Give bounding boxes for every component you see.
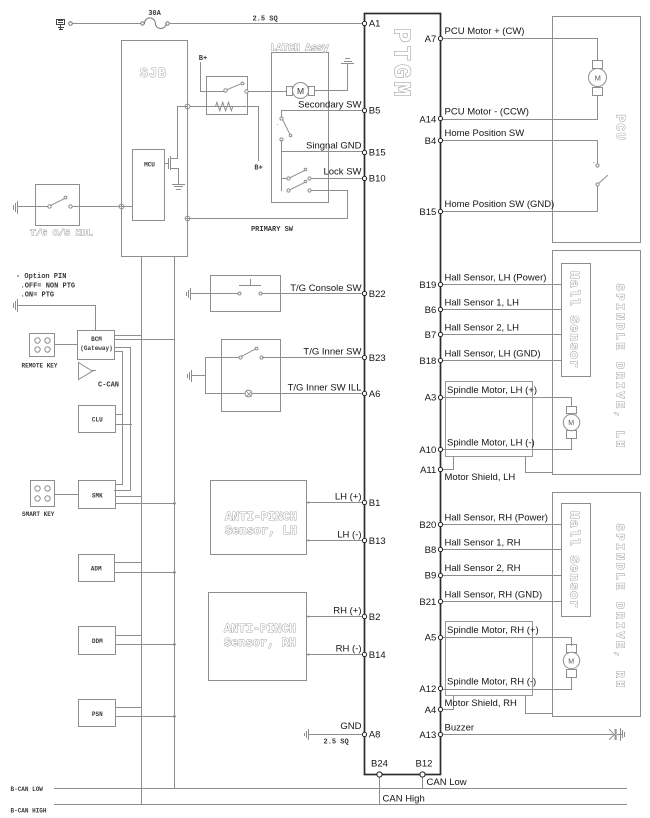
svg-text:B14: B14: [369, 650, 386, 661]
battery B+ symbol: [57, 20, 65, 30]
Hall Sensor RH box: [562, 504, 591, 617]
wire pin B6 to hall sensor LH: [443, 309, 562, 311]
svg-text:- Option PIN: - Option PIN: [16, 273, 66, 281]
wire pin B5 to secondary switch: [282, 111, 364, 117]
wire DDM to CAN bus B: [116, 644, 175, 646]
svg-text:A12: A12: [419, 684, 436, 695]
ANTI-PINCH Sensor LH box: [211, 481, 307, 555]
right side wire labels: [445, 26, 555, 734]
svg-text:A13: A13: [419, 730, 436, 741]
resistor (relay coil): [190, 102, 247, 110]
svg-text:A6: A6: [369, 389, 381, 400]
node: SJB right edge junction to relay coil: [185, 104, 190, 109]
svg-text:Hall Sensor 1, LH: Hall Sensor 1, LH: [445, 298, 520, 309]
svg-text:A4: A4: [425, 705, 437, 716]
T/G Inner SW box: [222, 340, 281, 412]
wire pin B19 to hall sensor LH: [443, 284, 562, 286]
svg-text:M: M: [595, 73, 601, 82]
wire inner SW to pin B23: [263, 357, 364, 359]
lock SW (latch, lower): [287, 189, 290, 192]
pin terminals right: [438, 36, 442, 736]
svg-text:PCU Motor - (CCW): PCU Motor - (CCW): [445, 107, 529, 118]
svg-text:Spindle Motor, LH (-): Spindle Motor, LH (-): [447, 437, 535, 448]
ground (latch assy, upward): [342, 59, 354, 64]
SJB box: [122, 41, 188, 257]
svg-text:Motor Shield, LH: Motor Shield, LH: [445, 472, 516, 483]
wire pin A13 to buzzer: [443, 734, 613, 736]
svg-text:Hall Sensor, LH (GND): Hall Sensor, LH (GND): [445, 349, 541, 360]
wire pin A11 to motor shield LH: [443, 457, 454, 470]
svg-text:.OFF= NON PTG: .OFF= NON PTG: [21, 283, 76, 291]
svg-text:REMOTE KEY: REMOTE KEY: [22, 363, 58, 370]
svg-text:LH (+): LH (+): [335, 492, 362, 503]
svg-text:A8: A8: [369, 730, 381, 741]
wire ground to inner SW branches: [192, 358, 246, 394]
svg-text:30A: 30A: [148, 10, 161, 18]
svg-text:A5: A5: [425, 633, 437, 644]
wire battery to fuse: [73, 23, 141, 25]
wire spindle motor RH to pin A12: [443, 678, 572, 690]
svg-text:B-CAN HIGH: B-CAN HIGH: [11, 808, 47, 815]
svg-text:(Gateway): (Gateway): [80, 345, 112, 352]
wire pin B8 to hall sensor RH: [443, 549, 562, 551]
wire LH (-) to pin B13: [307, 540, 364, 542]
Hall Sensor LH box: [562, 264, 591, 377]
wire CLU to C-CAN 2: [116, 424, 132, 426]
svg-text:B7: B7: [425, 330, 437, 341]
svg-text:T/G Console SW: T/G Console SW: [290, 283, 361, 294]
svg-text:PSN: PSN: [92, 711, 103, 718]
wire BCM to CAN bus B: [115, 339, 175, 341]
ground (T/G console SW): [187, 289, 191, 300]
wire spindle motor LH to pin A10: [443, 439, 572, 450]
SMK box: [79, 481, 116, 509]
svg-text:B12: B12: [416, 759, 433, 770]
svg-text:B24: B24: [371, 759, 388, 770]
svg-text:B6: B6: [425, 305, 437, 316]
svg-text:PCU Motor + (CW): PCU Motor + (CW): [445, 26, 525, 37]
svg-text:CLU: CLU: [92, 417, 103, 424]
relay box (in SJB output stage): [207, 77, 248, 115]
wire pin A7 to PCU motor: [443, 39, 598, 61]
SPINDLE DRIVE RH box: [553, 493, 641, 717]
svg-text:Home Position SW (GND): Home Position SW (GND): [445, 199, 555, 210]
svg-text:ADM: ADM: [91, 566, 102, 573]
wire SMK to CAN bus A: [116, 496, 142, 498]
wire BCM to C-CAN down 2: [115, 352, 123, 485]
wire to lock switches: [281, 153, 283, 191]
svg-text:A7: A7: [425, 34, 437, 45]
CAN bus A vertical (SJB to B-CAN HIGH): [141, 257, 143, 805]
svg-text:CAN High: CAN High: [383, 794, 425, 805]
motor M (latch): [287, 87, 293, 96]
wire console SW to pin B22: [263, 293, 364, 295]
svg-text:A3: A3: [425, 393, 437, 404]
svg-text:Secondary SW: Secondary SW: [298, 100, 361, 111]
wire motor shield LH to spindle drive LH: [526, 457, 553, 473]
wire coil to B+: [248, 107, 259, 161]
svg-text:RH (+): RH (+): [333, 606, 361, 617]
wire RH (+) to pin B2: [307, 616, 364, 618]
svg-text:C-CAN: C-CAN: [98, 382, 119, 390]
LATCH Assy box: [272, 53, 329, 203]
svg-text:Hall Sensor, RH (Power): Hall Sensor, RH (Power): [445, 513, 548, 524]
wire lamp to pin A6: [253, 393, 364, 395]
svg-text:B22: B22: [369, 289, 386, 300]
svg-text:Sensor, LH: Sensor, LH: [225, 524, 297, 538]
svg-text:M: M: [568, 659, 574, 666]
pin terminals bottom: [377, 772, 425, 777]
wire remote key to BCM: [55, 344, 78, 346]
wire fuse to pin A1, 2.5 SQ: [170, 23, 364, 25]
wire pin B21 to hall sensor RH: [443, 601, 562, 603]
wire pin B7 to hall sensor LH: [443, 334, 562, 336]
CAN bus B vertical (SJB to B-CAN LOW): [174, 257, 176, 789]
svg-text:M: M: [297, 86, 304, 96]
wire BCM to CAN bus A: [115, 335, 142, 337]
svg-text:T/G Inner SW: T/G Inner SW: [303, 347, 361, 358]
svg-text:SMK: SMK: [92, 493, 103, 500]
wire pin B9 to hall sensor RH: [443, 575, 562, 577]
svg-text:B21: B21: [419, 597, 436, 608]
buzzer: [610, 729, 625, 741]
wire ground to console SW: [191, 293, 239, 295]
svg-text:B10: B10: [369, 174, 386, 185]
ground (T/G O/S HDL): [14, 202, 18, 214]
svg-text:B15: B15: [419, 207, 436, 218]
wire pin B18 to hall sensor LH: [443, 360, 562, 362]
wire option pin to BCM: [18, 306, 96, 331]
svg-text:B2: B2: [369, 612, 381, 623]
T/G O/S HDL box: [36, 185, 80, 226]
wire switch to SJB/MCU: [73, 206, 133, 208]
secondary SW (latch): [280, 117, 283, 120]
wire pin A5 to spindle motor RH: [443, 638, 572, 646]
svg-text:B5: B5: [369, 105, 381, 116]
svg-text:BCM: BCM: [91, 336, 102, 343]
svg-text:Lock SW: Lock SW: [323, 167, 361, 178]
wire ADM to CAN bus B: [115, 572, 175, 574]
svg-text:Hall Sensor, RH (GND): Hall Sensor, RH (GND): [445, 590, 543, 601]
ADM box: [79, 555, 115, 582]
ground (option pin): [14, 300, 18, 312]
wire pin B4 to home position SW: [443, 141, 598, 164]
wire signal gnd B15: [282, 141, 364, 152]
wire BCM to C-CAN down 1: [115, 348, 131, 491]
svg-text:DDM: DDM: [92, 638, 103, 645]
SMART KEY fob: [31, 481, 55, 507]
svg-text:B1: B1: [369, 498, 381, 509]
motor shield LH box: [446, 382, 533, 457]
svg-text:Spindle Motor, RH (-): Spindle Motor, RH (-): [447, 677, 536, 688]
svg-text:RH (-): RH (-): [336, 644, 362, 655]
svg-text:Sensor, RH: Sensor, RH: [224, 636, 296, 650]
switch (inner SW): [239, 356, 242, 359]
lamp (inner SW ILL): [245, 390, 252, 397]
svg-text:2.5 SQ: 2.5 SQ: [324, 739, 349, 747]
wire PSN to CAN bus A: [116, 707, 142, 709]
wire RH (-) to pin B14: [307, 654, 364, 656]
wire pin A3 to spindle motor LH: [443, 398, 572, 407]
fuse 30A: [141, 22, 144, 25]
ground (SJB internal): [173, 185, 185, 190]
svg-text:B15: B15: [369, 148, 386, 159]
svg-text:Hall Sensor: Hall Sensor: [567, 271, 582, 369]
svg-text:B23: B23: [369, 353, 386, 364]
switch (T/G O/S HDL): [48, 205, 51, 208]
node: battery output terminal: [69, 22, 73, 26]
svg-text:.ON= PTG: .ON= PTG: [21, 292, 55, 300]
spindle motor RH: [567, 645, 577, 653]
wire ground to pin A8: [309, 734, 364, 736]
svg-text:PRIMARY SW: PRIMARY SW: [251, 226, 294, 234]
svg-text:2.5 SQ: 2.5 SQ: [253, 16, 278, 24]
PCU box: [553, 17, 641, 243]
svg-text:SJB: SJB: [140, 67, 167, 82]
wire relay to latch motor: [249, 91, 287, 93]
svg-text:Spindle Motor, RH (+): Spindle Motor, RH (+): [447, 625, 539, 636]
svg-text:SMART KEY: SMART KEY: [22, 511, 55, 518]
BCM (Gateway) box: [78, 331, 115, 360]
wire ground to T/G O/S HDL switch: [18, 206, 48, 208]
wire PCU motor to pin A14: [443, 96, 598, 120]
wire CLU to C-CAN 1: [116, 414, 123, 416]
wire home position SW to pin B15: [443, 187, 598, 212]
push button (console SW): [240, 280, 261, 286]
svg-text:A14: A14: [419, 114, 436, 125]
wire ADM to CAN bus A: [115, 562, 142, 564]
svg-text:Spindle Motor, LH (+): Spindle Motor, LH (+): [447, 385, 537, 396]
wire pin B20 to hall sensor RH: [443, 524, 562, 526]
svg-text:LATCH Assy: LATCH Assy: [271, 44, 329, 55]
wire pin B12 to B-CAN LOW: [422, 775, 424, 789]
motor shield RH box: [446, 622, 533, 696]
svg-text:B+: B+: [199, 55, 207, 63]
SPINDLE DRIVE LH box: [553, 251, 641, 475]
wire pin A4 to motor shield RH: [443, 696, 454, 710]
DDM box: [79, 627, 116, 655]
svg-text:B-CAN LOW: B-CAN LOW: [11, 786, 44, 793]
svg-text:CAN Low: CAN Low: [427, 777, 467, 788]
svg-text:Home Position SW: Home Position SW: [445, 128, 525, 139]
svg-text:Hall Sensor 2, RH: Hall Sensor 2, RH: [445, 563, 521, 574]
svg-text:PTGM: PTGM: [387, 28, 414, 100]
pin labels left: [369, 18, 386, 740]
svg-text:ANTI-PINCH: ANTI-PINCH: [225, 510, 297, 524]
svg-text:Hall Sensor 1, RH: Hall Sensor 1, RH: [445, 538, 521, 549]
svg-text:MCU: MCU: [144, 162, 155, 169]
svg-text:T/G Inner SW ILL: T/G Inner SW ILL: [288, 383, 362, 394]
svg-text:A1: A1: [369, 18, 381, 29]
svg-text:M: M: [568, 420, 574, 427]
svg-text:LH (-): LH (-): [337, 530, 361, 541]
svg-text:B8: B8: [425, 545, 437, 556]
svg-text:SPINDLE DRIVE, LH: SPINDLE DRIVE, LH: [613, 284, 626, 451]
node: SJB right edge junction primary SW: [185, 216, 190, 221]
node: SJB left edge junction: [119, 204, 124, 209]
pin labels right: [419, 34, 436, 741]
CLU box: [79, 406, 116, 433]
wire latch motor to ground: [315, 65, 348, 91]
svg-text:ANTI-PINCH: ANTI-PINCH: [224, 622, 296, 636]
PSN box: [79, 700, 116, 727]
svg-text:Buzzer: Buzzer: [445, 723, 475, 734]
svg-text:Motor Shield, RH: Motor Shield, RH: [445, 698, 517, 709]
wire LH (+) to pin B1: [307, 502, 364, 504]
relay switch contacts: [224, 89, 227, 92]
svg-text:B19: B19: [419, 280, 436, 291]
svg-text:Singnal GND: Singnal GND: [306, 141, 362, 152]
svg-text:B13: B13: [369, 536, 386, 547]
svg-text:Hall Sensor, LH (Power): Hall Sensor, LH (Power): [445, 273, 547, 284]
pin terminals left: [362, 21, 366, 736]
svg-text:Hall Sensor: Hall Sensor: [567, 511, 582, 609]
svg-text:A10: A10: [419, 445, 436, 456]
wire motor shield RH to spindle drive RH: [526, 696, 553, 714]
transistor Q1 (MOSFET in SJB): [165, 107, 187, 184]
svg-text:B9: B9: [425, 571, 437, 582]
spindle motor LH: [567, 407, 577, 414]
svg-text:GND: GND: [340, 721, 361, 732]
PTGM module box: [365, 14, 441, 775]
ANTI-PINCH Sensor RH box: [209, 593, 307, 681]
wire pin B24 to B-CAN HIGH: [379, 775, 381, 805]
home position SW (PCU): [596, 164, 599, 167]
svg-text:T/G O/S HDL: T/G O/S HDL: [30, 228, 93, 239]
lock SW (latch, upper): [282, 178, 288, 180]
wire SMK to CAN bus B: [116, 503, 175, 505]
svg-text:B20: B20: [419, 520, 436, 531]
svg-text:B18: B18: [419, 356, 436, 367]
wire B+ feed to relay switch: [201, 63, 225, 92]
MCU box: [133, 150, 165, 221]
REMOTE KEY transmitter: [30, 334, 55, 357]
svg-text:B+: B+: [254, 165, 262, 173]
svg-text:Hall Sensor 2, LH: Hall Sensor 2, LH: [445, 323, 520, 334]
motor M (PCU): [593, 61, 603, 69]
svg-text:A11: A11: [420, 465, 436, 476]
wire PSN to CAN bus B: [116, 716, 175, 718]
T/G Console SW box: [211, 276, 281, 312]
wire DDM to CAN bus A: [116, 635, 142, 637]
ground (T/G inner SW): [188, 371, 192, 382]
svg-text:PCU: PCU: [613, 114, 627, 141]
svg-text:B4: B4: [425, 136, 437, 147]
wire smart key to SMK: [55, 494, 79, 496]
svg-text:SPINDLE DRIVE, RH: SPINDLE DRIVE, RH: [613, 524, 626, 691]
amplifier triangle (gateway): [79, 363, 96, 380]
ground (GND A8): [305, 730, 309, 740]
wire primary SW to SJB: [187, 191, 348, 219]
wire lock SW to pin B10: [312, 178, 364, 180]
